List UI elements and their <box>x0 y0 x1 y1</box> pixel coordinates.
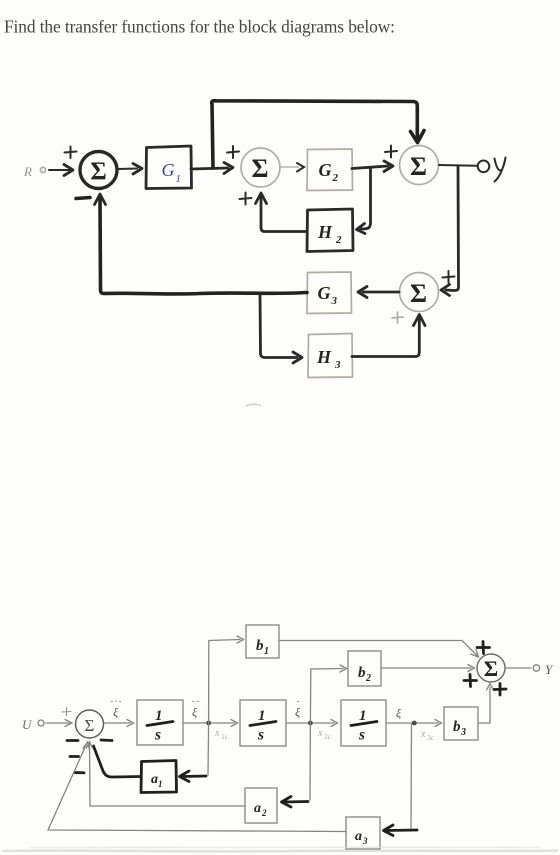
svg-text:x: x <box>317 728 323 739</box>
svg-text:2: 2 <box>335 234 342 246</box>
svg-text:3: 3 <box>460 727 466 738</box>
svg-text:Σ: Σ <box>90 158 106 185</box>
svg-text:Y: Y <box>545 662 554 677</box>
svg-text:Σ: Σ <box>484 656 498 681</box>
svg-text:2: 2 <box>365 673 371 684</box>
svg-text:1: 1 <box>158 779 163 789</box>
svg-text:G: G <box>319 160 332 180</box>
svg-text:a: a <box>355 829 362 844</box>
svg-text:U: U <box>22 717 33 732</box>
svg-text:x: x <box>420 729 426 740</box>
svg-text:1: 1 <box>264 646 269 657</box>
svg-text:1c: 1c <box>221 732 229 741</box>
svg-text:1: 1 <box>155 708 163 724</box>
svg-text:1: 1 <box>176 173 182 185</box>
svg-text:b: b <box>453 719 461 735</box>
svg-text:s: s <box>257 727 264 744</box>
svg-text:b: b <box>256 638 264 654</box>
svg-text:s: s <box>358 727 365 744</box>
svg-text:1: 1 <box>258 708 266 724</box>
svg-text:2c: 2c <box>324 732 332 741</box>
svg-text:Σ: Σ <box>410 279 427 308</box>
svg-text:ξ: ξ <box>295 705 301 719</box>
svg-text:3: 3 <box>362 836 368 846</box>
svg-text:ξ: ξ <box>396 706 402 720</box>
svg-text:G: G <box>318 283 331 303</box>
svg-text:a: a <box>151 772 158 787</box>
svg-text:s: s <box>154 727 161 744</box>
svg-text:Σ: Σ <box>410 152 427 181</box>
svg-text:Find the transfer functions fo: Find the transfer functions for the bloc… <box>4 17 395 37</box>
svg-text:ξ: ξ <box>113 705 119 719</box>
svg-text:b: b <box>358 665 366 681</box>
svg-text:2: 2 <box>332 172 339 184</box>
svg-text:1: 1 <box>359 708 367 724</box>
svg-text:x: x <box>214 728 220 739</box>
svg-text:G: G <box>162 160 175 180</box>
svg-text:Σ: Σ <box>85 716 95 735</box>
svg-text:H: H <box>317 222 333 242</box>
svg-text:ξ: ξ <box>192 705 198 719</box>
svg-text:3: 3 <box>334 359 341 371</box>
svg-text:R: R <box>23 164 32 179</box>
svg-text:a: a <box>254 801 261 816</box>
svg-text:H: H <box>316 347 332 367</box>
svg-text:3: 3 <box>331 295 338 307</box>
svg-text:2: 2 <box>261 808 267 818</box>
svg-text:Σ: Σ <box>252 154 269 183</box>
svg-text:3c: 3c <box>427 733 435 742</box>
